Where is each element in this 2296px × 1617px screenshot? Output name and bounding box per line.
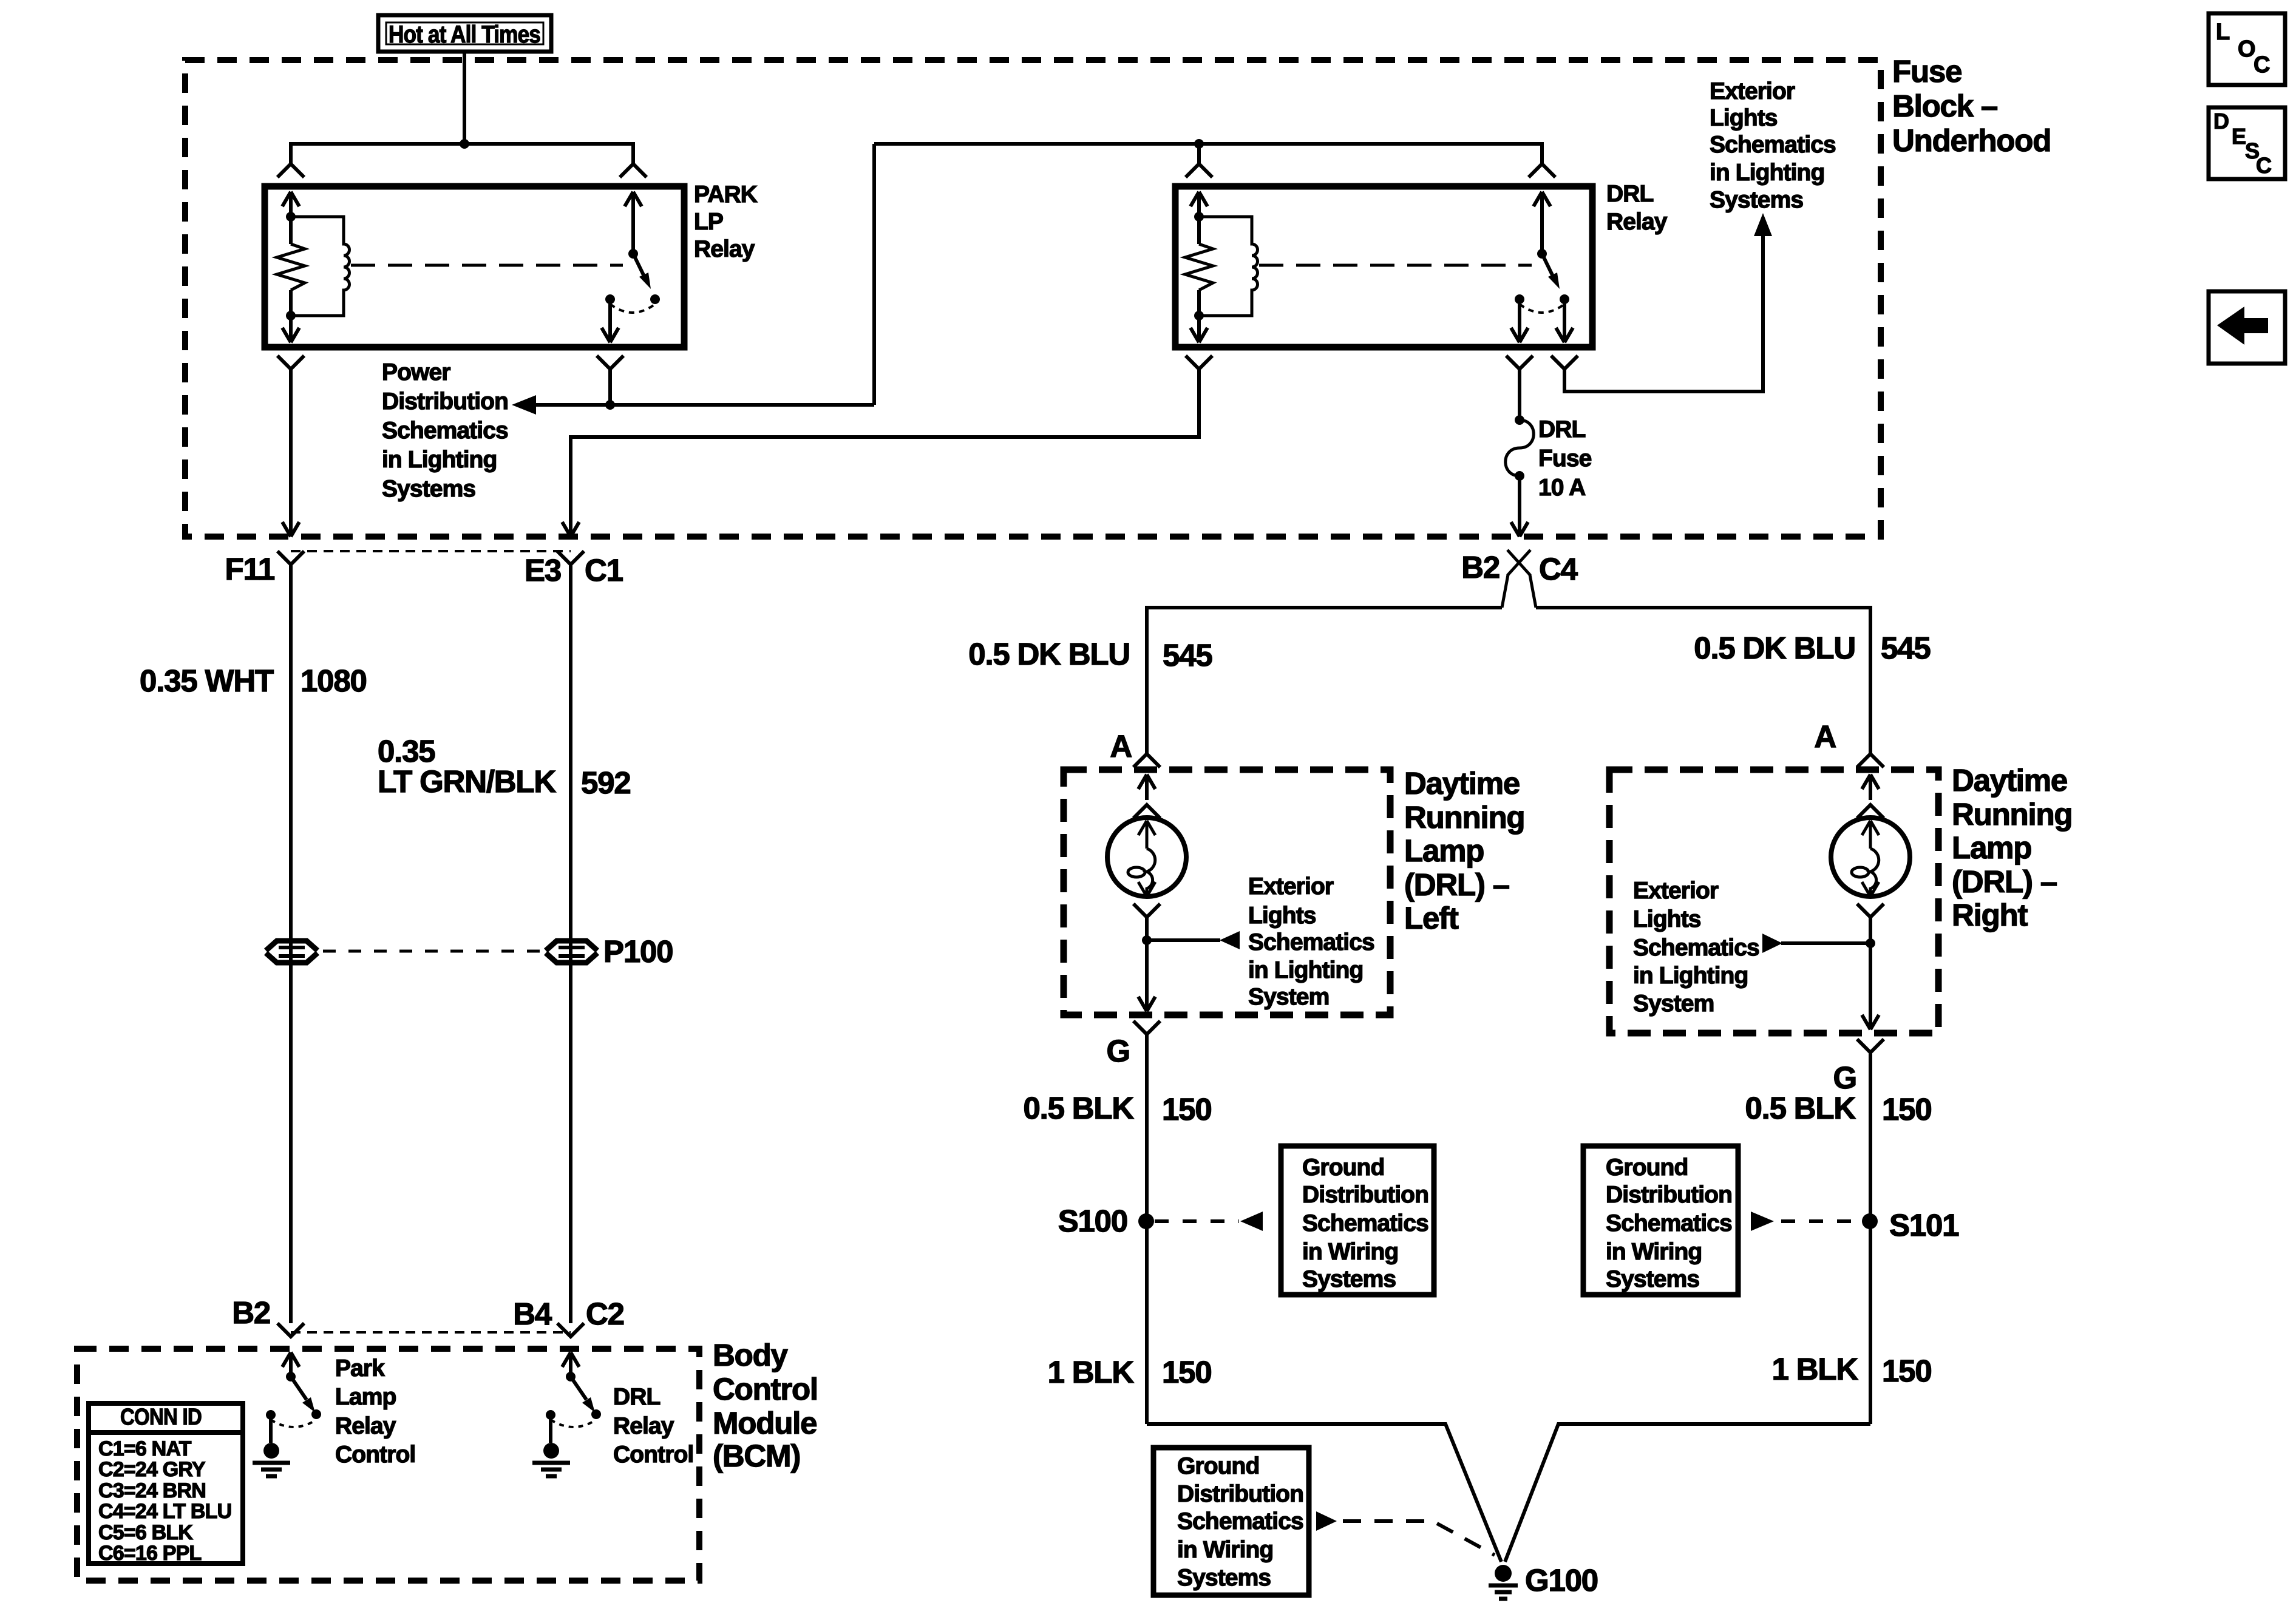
svg-text:S101: S101 [1889,1208,1958,1242]
DRL relay coil pin upper wire with up arrow [1190,192,1207,244]
svg-text:Block –: Block – [1892,89,1997,123]
fuse block underhood dashed boundary [185,60,1881,537]
svg-text:Exterior: Exterior [1633,878,1719,904]
label: Power Distribution Schematics in Lighting Systems [382,359,508,502]
ground distribution box left [1281,1146,1434,1295]
wire: PARK coil pin down to F11 with arrow [282,369,299,537]
DRL fuse element [1506,415,1534,481]
lamp left: branch to exterior lights schematics [1147,931,1240,949]
daytime running lamp left dashed box [1064,770,1390,1015]
PARK switch common contact [605,294,615,304]
connector chevron into PARK relay switch pin [620,164,647,177]
back arrow nav box [2209,291,2285,364]
svg-text:Relay: Relay [335,1413,396,1439]
node: feed junction [460,139,469,149]
label: Daytime Running Lamp (DRL) - Right [1952,763,2072,932]
node: DRL coil top [1194,212,1204,222]
dashed reference to S101 [1751,1212,1861,1231]
svg-text:Exterior: Exterior [1710,78,1795,104]
node: lamp right tap [1866,938,1875,948]
DRL driver switch blade [571,1377,595,1412]
wire: PARK switch output down to junction [608,369,612,405]
ground distribution box bottom [1153,1448,1309,1595]
PARK switch output wire with down arrow [602,299,619,342]
wire: battery feed down from Hot at All Times [463,52,466,144]
BCM DRL relay control driver: up arrow [562,1352,579,1377]
DRL switch common contact [1515,294,1524,304]
svg-text:150: 150 [1162,1092,1212,1127]
node: PARK coil bottom [286,311,296,320]
svg-text:C1: C1 [585,553,623,588]
PARK LP relay box [265,186,684,347]
svg-text:DRL: DRL [1606,181,1654,207]
svg-text:in Wiring: in Wiring [1302,1239,1398,1265]
svg-text:System: System [1248,984,1329,1010]
PARK contact dashed arc [610,304,655,313]
svg-text:Power: Power [382,359,450,385]
dashed reference from bottom ground box to G100 [1316,1511,1495,1555]
node: park lamp feed junction [605,400,615,410]
wire: lamp right ground run [1869,1053,1872,1424]
svg-text:Daytime: Daytime [1404,766,1520,801]
svg-text:Hot at All Times: Hot at All Times [389,21,540,48]
wire: C1 to BCM C2 [569,564,572,1323]
label: 0.35 LT GRN/BLK [378,734,556,799]
wire: fuse to B2 with arrow [1511,476,1528,537]
svg-text:Right: Right [1952,898,2028,932]
node: DRL switch pivot [1537,249,1547,259]
svg-text:Daytime: Daytime [1952,763,2067,798]
svg-text:E3: E3 [525,553,561,588]
label: Fuse Block - Underhood [1892,54,2051,158]
connector chevron into lamp right [1857,754,1884,767]
inline connector P100 right [546,941,597,963]
svg-text:Systems: Systems [1302,1266,1396,1292]
dashed reference from S100 [1155,1212,1263,1231]
svg-text:Ground: Ground [1177,1453,1259,1479]
park driver common contact [266,1410,276,1420]
wire: F11 to BCM B2 [289,564,293,1323]
svg-text:in Lighting: in Lighting [1248,957,1363,983]
label: DRL Relay [1606,181,1668,235]
svg-text:G: G [1107,1034,1130,1068]
connector chevron below lamp left [1133,1021,1160,1034]
lamp right: wire below bulb [1869,917,1872,943]
svg-text:Schematics: Schematics [1710,132,1836,158]
LOC nav box [2209,13,2285,85]
node: DRL coil branch junction [1194,139,1204,149]
connector chevron below lamp right [1857,1039,1884,1053]
svg-text:0.5 BLK: 0.5 BLK [1024,1091,1135,1125]
svg-text:0.5 DK BLU: 0.5 DK BLU [1694,631,1855,665]
wire: left ground run to G100 [1147,1424,1501,1562]
svg-text:CONN ID: CONN ID [120,1405,202,1430]
ground symbol (DRL driver) [532,1443,570,1476]
daytime running lamp right dashed box [1609,770,1938,1033]
wire: riser to DRL feed bus [872,144,876,405]
svg-text:C3=24 BRN: C3=24 BRN [98,1479,206,1502]
wire: DRL coil bottom to E3 with arrow [562,369,1199,537]
svg-text:592: 592 [581,765,631,800]
svg-text:Fuse: Fuse [1892,54,1961,89]
ground G100 [1489,1565,1518,1599]
svg-text:in Lighting: in Lighting [1710,160,1824,186]
svg-text:Distribution: Distribution [382,388,508,415]
wire: DK BLU left arm to DRL lamp left [1147,608,1502,754]
svg-text:Distribution: Distribution [1606,1182,1732,1208]
label: Ground Distribution Schematics in Wiring Systems (left) [1302,1154,1428,1292]
svg-text:C5=6 BLK: C5=6 BLK [98,1521,193,1544]
DRL relay coil pin lower wire with down arrow [1190,290,1207,342]
wire: DK BLU right arm to DRL lamp right [1536,608,1870,754]
lamp right: exit wire with down arrow [1862,943,1879,1029]
svg-text:150: 150 [1162,1355,1212,1389]
svg-text:Ground: Ground [1606,1154,1688,1181]
park driver contact dashed arc [271,1420,316,1427]
svg-text:Relay: Relay [1606,209,1668,235]
park driver NO contact [311,1409,321,1419]
DRL relay box [1175,186,1592,347]
svg-text:Lamp: Lamp [1952,830,2031,865]
svg-text:150: 150 [1882,1092,1932,1127]
chevron below DRL NO pin [1551,356,1578,369]
svg-text:0.5 BLK: 0.5 BLK [1745,1091,1856,1125]
svg-text:Left: Left [1404,901,1459,935]
svg-text:P100: P100 [603,934,673,969]
ground symbol (park driver) [253,1443,290,1476]
svg-text:Module: Module [713,1406,817,1440]
label: Ground Distribution Schematics in Wiring Systems (right) [1606,1154,1732,1292]
splice legs below B2/C4 [1502,575,1536,608]
node: PARK switch pivot [628,249,638,259]
conn table rows [98,1437,231,1565]
svg-text:Control: Control [713,1372,818,1406]
wire: right ground run to G100 [1505,1424,1870,1562]
svg-text:Running: Running [1404,800,1524,835]
svg-text:C4=24 LT BLU: C4=24 LT BLU [98,1500,231,1523]
P100 dashed pair link [323,950,540,953]
label: Body Control Module (BCM) [713,1338,818,1473]
svg-text:Ground: Ground [1302,1154,1384,1181]
svg-text:0.35 WHT: 0.35 WHT [140,663,274,698]
actuation dashed link (PARK relay) [351,264,623,267]
PARK switch pivot wire with up arrow [625,192,642,254]
svg-text:Systems: Systems [382,476,475,502]
chevron below PARK coil pin [277,356,304,369]
svg-text:Lamp: Lamp [335,1384,396,1410]
svg-text:L: L [2216,19,2230,45]
svg-text:in Lighting: in Lighting [382,447,497,473]
svg-text:A: A [1814,719,1836,754]
svg-text:Lights: Lights [1248,903,1316,929]
svg-text:C4: C4 [1539,552,1578,586]
svg-text:Schematics: Schematics [1302,1210,1428,1236]
svg-text:10 A: 10 A [1538,475,1586,501]
wire: DRL switch to fuse [1518,369,1521,420]
svg-text:Underhood: Underhood [1892,123,2051,158]
resistor (DRL relay) [1185,244,1213,290]
coil (PARK relay) [291,217,350,316]
svg-text:1080: 1080 [301,663,367,698]
label: Park Lamp Relay Control [335,1355,415,1468]
svg-text:Schematics: Schematics [1606,1210,1732,1236]
DRL switch blade [1542,254,1560,289]
PARK relay coil pin upper wire with up arrow [282,192,299,244]
svg-text:in Wiring: in Wiring [1177,1537,1273,1563]
body control module dashed box [77,1349,699,1581]
DRL driver NO contact [591,1409,601,1419]
actuation dashed link (DRL relay) [1259,264,1532,267]
label: DRL Fuse 10 A [1538,416,1592,501]
svg-text:E: E [2232,124,2246,149]
connector row dashed line B2 / B4 [291,1331,571,1334]
DRL driver contact dashed arc [551,1420,596,1427]
svg-text:Relay: Relay [613,1413,674,1439]
lamp left: exit wire with down arrow [1138,940,1155,1011]
svg-text:F11: F11 [225,552,274,586]
CONN ID table [89,1403,243,1564]
lamp right: chevron below bulb [1857,904,1884,917]
svg-text:Systems: Systems [1177,1565,1271,1591]
svg-text:Lamp: Lamp [1404,833,1484,868]
svg-text:1 BLK: 1 BLK [1772,1352,1859,1386]
BCM park lamp relay control driver: up arrow [282,1352,299,1377]
svg-text:(DRL) –: (DRL) – [1404,867,1509,902]
connector chevron B2 [277,1323,304,1337]
node: park driver pivot [286,1372,296,1381]
chevron below DRL fuse pin [1506,356,1533,369]
splice node S101 [1862,1213,1878,1229]
label: Exterior Lights Schematics in Lighting Systems (top) [1710,78,1836,213]
PARK switch NO contact [650,294,660,304]
svg-text:Lights: Lights [1633,906,1701,932]
resistor (PARK relay) [277,244,305,290]
DRL contact dashed arc [1520,304,1564,313]
label: Exterior Lights Schematics in Lighting System (left lamp) [1248,873,1374,1010]
label: DRL Relay Control [613,1384,693,1468]
svg-text:150: 150 [1882,1354,1932,1388]
svg-text:in Wiring: in Wiring [1606,1239,1702,1265]
svg-text:Control: Control [335,1442,415,1468]
svg-text:DRL: DRL [613,1384,661,1410]
DESC nav box [2209,107,2285,179]
connector chevron above bulb left [1133,805,1160,818]
bulb right filament [1852,821,1879,897]
lamp right: branch to exterior lights schematics [1762,934,1870,953]
svg-text:Distribution: Distribution [1302,1182,1428,1208]
wire: feed bus to DRL relay [874,144,1542,164]
svg-text:S100: S100 [1058,1204,1127,1238]
label: Daytime Running Lamp (DRL) - Left [1404,766,1524,935]
DRL switch NO contact [1560,294,1569,304]
svg-text:G: G [1833,1060,1856,1095]
bulb right (DRL lamp) [1831,818,1910,897]
svg-text:0.5 DK BLU: 0.5 DK BLU [968,637,1130,671]
node: lamp left tap [1142,935,1152,945]
pass-through connector B2/C4 (X symbol) [1507,550,1530,575]
connector chevron into DRL relay switch pin [1529,164,1555,177]
connector chevron into DRL relay coil pin [1186,164,1212,177]
wire: DRL coil branch [1197,144,1201,164]
lamp right: entry wire with up arrow [1862,775,1879,800]
DRL switch pivot wire with up arrow [1533,192,1550,254]
svg-text:0.35: 0.35 [378,734,435,768]
connector chevron E3/C1 [557,551,584,564]
svg-text:Control: Control [613,1442,693,1468]
DRL driver common contact [546,1410,555,1420]
svg-text:Distribution: Distribution [1177,1481,1303,1507]
bulb left (DRL lamp) [1107,818,1186,897]
svg-text:Relay: Relay [694,236,755,262]
svg-text:B2: B2 [232,1295,270,1330]
park driver switch blade [291,1377,315,1412]
svg-text:Schematics: Schematics [1248,929,1374,955]
svg-text:D: D [2213,109,2229,134]
PARK relay coil pin lower wire with down arrow [282,290,299,342]
connector chevron B4/C2 [557,1323,584,1337]
lamp left: chevron below bulb [1133,904,1160,917]
svg-text:1 BLK: 1 BLK [1048,1355,1135,1389]
svg-text:545: 545 [1163,638,1212,673]
svg-text:B4: B4 [513,1297,552,1331]
svg-text:Park: Park [335,1355,385,1381]
node: DRL driver pivot [566,1372,576,1381]
DRL switch common output wire with down arrow [1511,299,1528,342]
connector chevron F11 [277,551,304,564]
svg-text:Systems: Systems [1606,1266,1699,1292]
bulb left filament [1128,821,1155,897]
svg-text:Running: Running [1952,797,2072,832]
coil (DRL relay) [1199,217,1258,316]
svg-text:Schematics: Schematics [382,418,508,444]
svg-text:(BCM): (BCM) [713,1439,800,1473]
label: Ground Distribution Schematics in Wiring Systems (bottom) [1177,1453,1303,1591]
chevron below DRL coil pin [1186,356,1212,369]
svg-text:C: C [2254,52,2270,78]
svg-text:A: A [1110,729,1132,764]
svg-text:C2=24 GRY: C2=24 GRY [98,1458,206,1481]
wire: DRL NO to exterior lights schematics (arrow up) [1564,213,1772,392]
svg-text:LP: LP [694,209,723,235]
svg-text:545: 545 [1881,631,1931,665]
svg-text:LT GRN/BLK: LT GRN/BLK [378,764,556,799]
svg-text:Fuse: Fuse [1538,446,1592,472]
svg-text:Systems: Systems [1710,187,1803,213]
node: PARK coil top [286,212,296,222]
svg-text:Schematics: Schematics [1633,935,1759,961]
svg-text:B2: B2 [1461,550,1500,585]
label: PARK LP Relay [694,181,758,262]
svg-text:C2: C2 [586,1297,624,1331]
inline connector P100 left [266,941,318,963]
svg-text:C6=16 PPL: C6=16 PPL [98,1542,202,1565]
svg-text:C: C [2256,153,2272,178]
connector chevron above bulb right [1857,805,1884,818]
wire: feed bus to PARK LP relay pins [291,144,633,164]
svg-text:(DRL) –: (DRL) – [1952,864,2057,899]
label: Exterior Lights Schematics in Lighting System (right lamp) [1633,878,1759,1017]
DRL driver ground stem [549,1415,552,1443]
ground distribution box right [1583,1146,1738,1295]
park driver ground stem [269,1415,273,1443]
svg-text:PARK: PARK [694,181,758,208]
chevron below PARK switch pin [597,356,623,369]
PARK switch blade [633,254,651,289]
connector row dashed line F11 / E3 [291,550,571,552]
svg-text:Body: Body [713,1338,789,1372]
svg-text:Exterior: Exterior [1248,873,1334,900]
svg-text:Lights: Lights [1710,105,1778,131]
svg-text:O: O [2238,36,2255,62]
connector chevron into PARK relay coil pin [277,164,304,177]
svg-text:G100: G100 [1525,1563,1598,1598]
wire: lamp left ground run [1145,1034,1149,1424]
DRL switch NO output wire with down arrow [1556,299,1573,342]
splice node S100 [1138,1213,1154,1229]
lamp left: entry wire with up arrow [1138,775,1155,800]
node: DRL coil bottom [1194,311,1204,320]
svg-text:C1=6 NAT: C1=6 NAT [98,1437,192,1460]
svg-text:DRL: DRL [1538,416,1586,442]
connector chevron into lamp left [1133,754,1160,767]
svg-text:in Lighting: in Lighting [1633,963,1748,989]
wire: to Power Distribution Schematics (arrow left) [512,395,874,415]
hot at all times feed box [378,15,551,52]
svg-text:Schematics: Schematics [1177,1508,1303,1534]
svg-text:System: System [1633,991,1714,1017]
lamp left: wire below bulb [1145,917,1149,940]
